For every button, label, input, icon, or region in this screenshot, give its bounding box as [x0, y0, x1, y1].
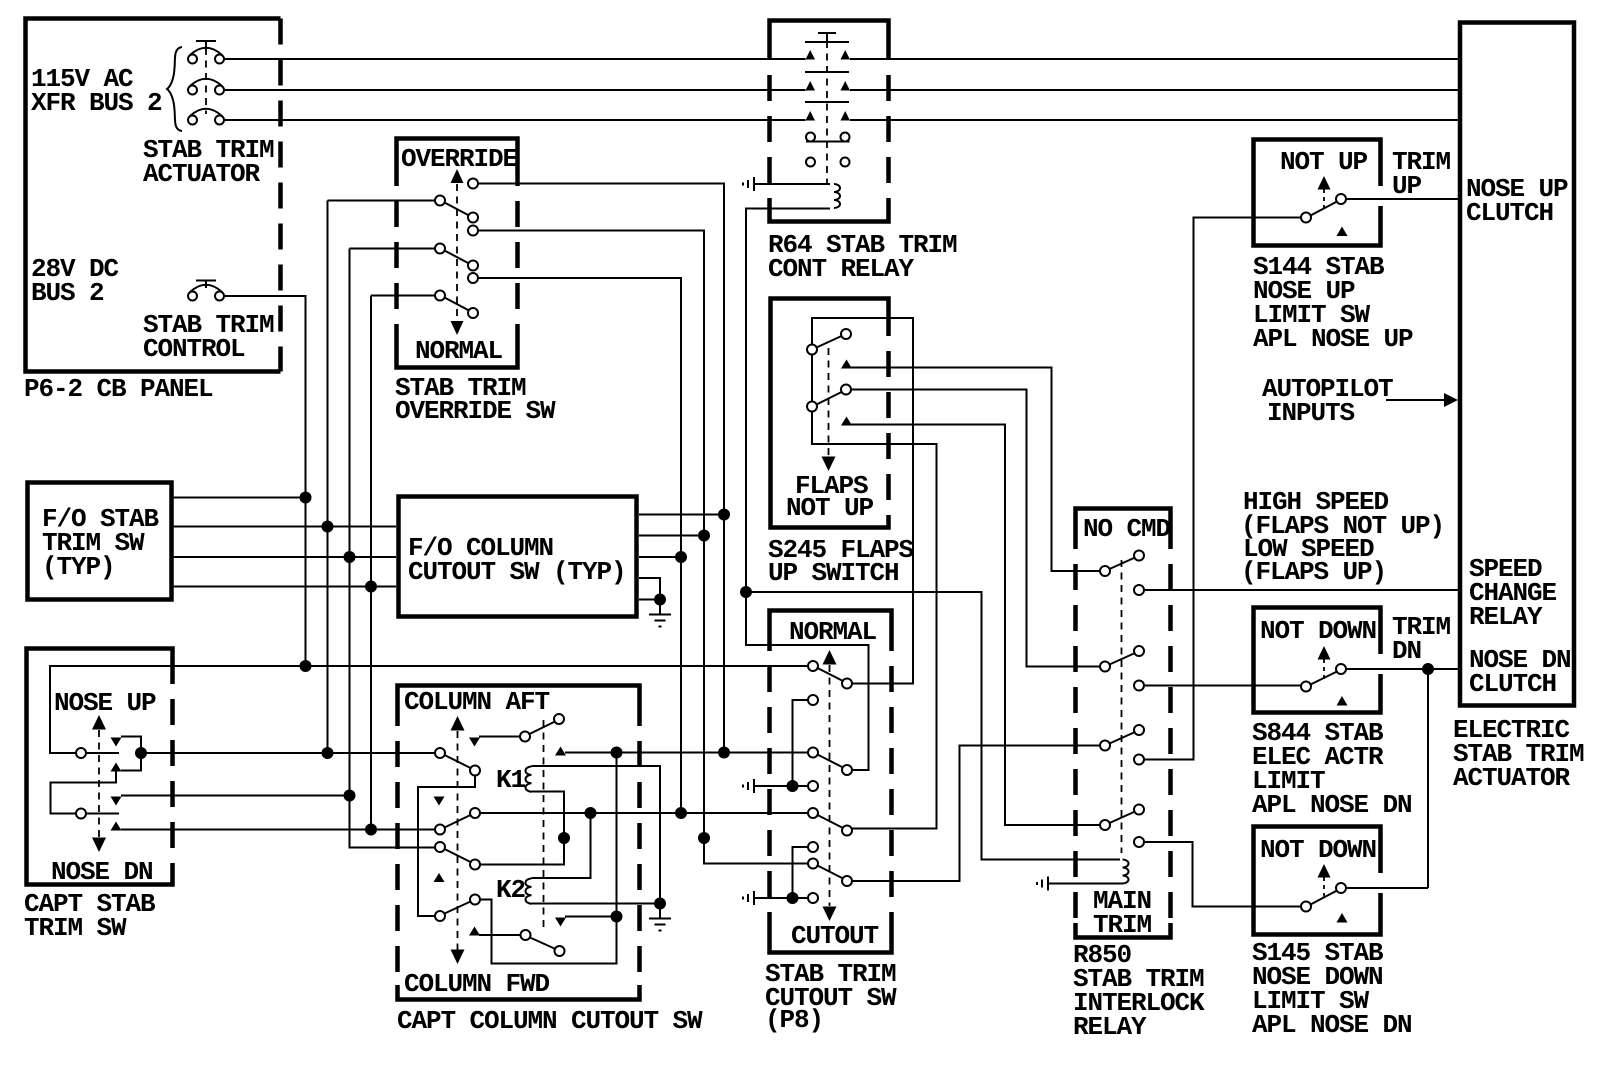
wire S245 pole2 up-mark to R850 pole4 common [851, 425, 1100, 826]
svg-text:NOSE UP: NOSE UP [54, 688, 156, 718]
R850 box dashed sides [1073, 523, 1078, 923]
bus override pole3 vertical x371 [370, 296, 372, 830]
wire K2 up-mark to pivot [479, 934, 521, 936]
autopilot inputs arrowhead [1444, 393, 1458, 407]
capt sw pole2 common [76, 809, 86, 819]
R64 T-bar [818, 33, 836, 41]
svg-text:RELAY: RELAY [1469, 602, 1543, 632]
S245 pole2 common [807, 402, 817, 412]
K2 contact blade [530, 938, 556, 950]
svg-text:NOT UP: NOT UP [1280, 147, 1368, 177]
K1 relay coil [526, 767, 532, 792]
wire S245 pole1 common to P8 pole1 contact [812, 318, 913, 684]
pole D common [435, 911, 445, 921]
wire K1 up-mark to P8 cutout pole2 common [565, 752, 808, 754]
svg-text:(TYP): (TYP) [42, 552, 115, 582]
S245 actuator dashed line [828, 348, 830, 458]
S844 blade [1311, 672, 1338, 685]
P8 cutout contact B [808, 781, 818, 791]
R850 pole1 blade [1110, 558, 1136, 570]
R850 pole4 blade end [1134, 805, 1144, 815]
capt sw pole1 common [76, 748, 86, 758]
node bus327 / F-O pin2 [322, 521, 334, 533]
node bus349 / F-O pin3 [344, 551, 356, 563]
override sw pole 2 lower contact [468, 261, 478, 271]
R850 pole3 common [1100, 741, 1110, 751]
column sw down arrow [451, 950, 465, 965]
node bus681 / pole B wire [675, 807, 687, 819]
capt column cutout box dashed sides [395, 700, 400, 985]
wire fo cutout pin3 to bus x681 [639, 556, 681, 558]
wire 28V DC control CB to bus [224, 296, 306, 498]
pole C contact [470, 860, 480, 870]
wire fo sw pin2 to fo cutout sw [172, 526, 396, 528]
capt column cutout sw box [398, 686, 640, 1000]
P6-2 CB panel box dashed right edge [278, 19, 283, 372]
P8 pole1 contact [842, 679, 852, 689]
override sw pole 3 lower contact [468, 308, 478, 318]
wire R850 pole2 contact to S844 common [1144, 685, 1301, 687]
svg-text:INPUTS: INPUTS [1267, 398, 1355, 428]
svg-text:NOT DOWN: NOT DOWN [1260, 835, 1376, 865]
svg-text:CONT RELAY: CONT RELAY [768, 254, 915, 284]
wire fo sw pin1 to bus x306 [172, 497, 306, 499]
svg-text:BUS 2: BUS 2 [31, 278, 104, 308]
svg-text:UP: UP [1392, 171, 1422, 201]
K2 contact blade end [555, 946, 565, 956]
R64 contact 3 triangles [806, 111, 851, 121]
R850 pole4 common [1100, 820, 1110, 830]
ground R64 coil [743, 177, 754, 191]
R850 pole2 blade [1110, 653, 1136, 665]
wire pole B contact to P8 cutout pole3 common [480, 812, 808, 814]
circuit breaker CB2 (phase B) [188, 79, 224, 95]
svg-text:NO CMD: NO CMD [1083, 514, 1171, 544]
pole B upper contact [470, 808, 480, 818]
wire fo cutout pin4 ground stub [639, 578, 660, 600]
bus override pole1 vertical x327 [327, 201, 329, 754]
P8 pole3 blade [818, 815, 844, 828]
P8 pole4 contact [842, 876, 852, 886]
K2 contact up-mark [469, 927, 480, 936]
stab trim override switch box [397, 139, 518, 368]
R850 relay coil [1123, 860, 1129, 884]
pole A contact [470, 766, 480, 776]
R850 pole2 blade end [1134, 646, 1144, 656]
wire capt pole2 down contact to capt column pole B [121, 829, 435, 831]
svg-text:K1: K1 [496, 765, 526, 795]
wire ground to R850 coil [1048, 883, 1123, 885]
P8 cutout contact D [808, 893, 818, 903]
brace for 115V AC bus [167, 47, 182, 131]
node bus371 / F-O pin4 [365, 581, 377, 593]
node F-O ground [654, 594, 666, 606]
svg-text:ACTUATOR: ACTUATOR [143, 159, 261, 189]
node bus724 / K1 wire [718, 747, 730, 759]
svg-text:APL NOSE UP: APL NOSE UP [1253, 324, 1413, 354]
wire phase A R64 to actuator box [850, 58, 1458, 60]
capt sw up arrow [92, 715, 106, 730]
S844 up arrow [1318, 646, 1331, 660]
node R64 coil junction [740, 586, 752, 598]
pole A blade [445, 755, 471, 768]
K1 contact down-mark [469, 738, 480, 747]
S844 common [1301, 682, 1311, 692]
stab trim cutout sw P8 box [770, 611, 892, 953]
P8 pole3 common [808, 808, 818, 818]
S144 actuator mini dashed line [1323, 189, 1325, 210]
node 28VDC / F-O pin1 [300, 492, 312, 504]
ground R850 coil [1037, 877, 1048, 891]
S144 box dashed right edge [1378, 152, 1383, 233]
S245 pole2 blade [817, 392, 842, 405]
wire R850 pole4 contact to S145 common [1144, 842, 1301, 907]
R850 stab trim interlock relay box [1076, 509, 1171, 938]
K2 contact pivot [521, 930, 531, 940]
wire pole A contact to pole D common [418, 776, 475, 917]
wire phase C R64 to actuator box [850, 119, 1458, 121]
wire R64 junction to R850 coil [746, 592, 1120, 860]
S245 pole1 blade [817, 336, 842, 348]
S145 actuator mini dashed line [1323, 877, 1325, 898]
F/O column cutout sw box [399, 497, 637, 617]
svg-text:RELAY: RELAY [1073, 1012, 1147, 1042]
R64 aux contact circles with bar [806, 133, 850, 142]
P8 pole2 common [808, 748, 818, 758]
wire override pole2 output to bus x704 [478, 231, 704, 536]
S844 up-mark [1337, 696, 1348, 706]
P8 pole1 common [808, 661, 818, 671]
S844 stab elec actr limit box [1254, 608, 1381, 713]
R64 actuator dashed line [826, 41, 828, 184]
R850 pole1 contact [1134, 585, 1144, 595]
R850 pole1 common [1100, 566, 1110, 576]
wire ground to cutout contact D [754, 897, 808, 899]
override sw pole 2 output contact [468, 226, 478, 236]
wire override pole3 common to bus x371 [371, 295, 435, 297]
svg-text:(P8): (P8) [765, 1005, 823, 1035]
P8 pole1 blade [818, 668, 844, 681]
node bus616 bottom [611, 911, 623, 923]
S245 flaps up switch box [771, 299, 889, 528]
S145 common [1301, 902, 1311, 912]
pole C common [435, 842, 445, 852]
R850 pole3 contact [1134, 755, 1144, 765]
override sw pole 1 blade [445, 203, 470, 216]
pole C blade [445, 849, 471, 862]
capt sw pole1 down contact [111, 763, 122, 772]
wire capt pole2 up contact to bus x349 [121, 795, 350, 797]
ground P8 upper [743, 779, 754, 793]
override sw pole 1 common [435, 196, 445, 206]
wire S245 common link [811, 355, 813, 402]
node bus704 / pole C wire [698, 832, 710, 844]
S245 pole2 upper contact [841, 385, 851, 395]
S145 box dashed right edge [1378, 839, 1383, 922]
pole D contact [470, 895, 480, 905]
K2 relay coil [526, 879, 532, 904]
node bus724 / F-O pin1 [718, 509, 730, 521]
node bus349 / capt up contact [344, 790, 356, 802]
capt box dashed right edge [170, 658, 175, 875]
up-mark pole C [434, 873, 445, 882]
wire capt pole1 common stub [86, 752, 119, 754]
column sw actuator dashed line [457, 731, 459, 950]
override sw pole 1 output contact [468, 179, 478, 189]
svg-text:NORMAL: NORMAL [789, 617, 877, 647]
R850 pole3 blade end [1134, 725, 1144, 735]
svg-text:DN: DN [1392, 636, 1421, 666]
node K1 coil / pole C [558, 832, 570, 844]
R64 contact 2 triangles [806, 81, 851, 91]
S245 box dashed right edge [886, 310, 891, 516]
wire fo sw pin3 to fo cutout sw [172, 556, 396, 558]
P8 actuator dashed line [829, 665, 831, 906]
P8 pole2 contact [842, 765, 852, 775]
CB gang dashed link [205, 48, 207, 114]
column sw up arrow [451, 716, 465, 731]
S844 box dashed right edge [1378, 620, 1383, 700]
P8 pole3 contact [842, 826, 852, 836]
R64 contact 3 bar [805, 101, 849, 103]
S145 blade [1311, 891, 1338, 905]
svg-text:OVERRIDE SW: OVERRIDE SW [395, 396, 556, 426]
svg-text:CLUTCH: CLUTCH [1466, 198, 1553, 228]
wire cutout contact A to ground dot [793, 700, 809, 786]
svg-text:CUTOUT SW (TYP): CUTOUT SW (TYP) [408, 557, 626, 587]
R64 relay coil [834, 184, 840, 208]
override sw pole 3 common [435, 291, 445, 301]
wire K1 coil bottom to pole C contact [480, 792, 564, 865]
S245 pole1 blade end [841, 329, 851, 339]
P8 pole4 blade [818, 866, 844, 879]
override sw pole 2 blade [445, 251, 470, 264]
wire phase B R64 to actuator box [850, 89, 1458, 91]
wire capt pole2 common stub [86, 813, 119, 815]
S144 stab nose up limit sw box [1254, 140, 1381, 246]
node K2 coil / pole B wire [585, 807, 597, 819]
R850 pole4 contact [1134, 837, 1144, 847]
wire cutout contact C to ground dot [793, 847, 809, 898]
svg-text:K2: K2 [496, 875, 526, 905]
R850 pole2 contact [1134, 681, 1144, 691]
R64 aux contact circles open [806, 158, 850, 167]
bus fo-cutout2 vertical x704 [704, 231, 808, 864]
wire P8 pole2 contact to R64 coil junction [746, 592, 869, 770]
wire override pole1 output to bus x724 [478, 184, 724, 753]
ground P8 lower [743, 891, 754, 905]
S145 up arrow [1318, 864, 1331, 878]
svg-text:CUTOUT: CUTOUT [791, 921, 879, 951]
wire S145 contact to S844 junction [1346, 887, 1428, 889]
S144 up-mark [1337, 227, 1348, 237]
wire phase B CB to R64 [224, 89, 806, 91]
wire R850 pole3 contact to S144 common [1144, 218, 1301, 760]
wire K1 coil top to ground dot [532, 766, 661, 904]
svg-text:NOSE DN: NOSE DN [51, 857, 153, 887]
svg-text:NORMAL: NORMAL [415, 336, 503, 366]
wire phase A CB to R64 [224, 58, 806, 60]
R64 stab trim cont relay box [770, 21, 889, 222]
capt sw down arrow [92, 838, 106, 853]
S144 blade [1311, 202, 1338, 216]
K1 contact pivot [520, 732, 530, 742]
pole B common [435, 825, 445, 835]
wire K2 coil bottom to ground dot [532, 903, 661, 905]
K1 K2 mechanical dashed link [543, 720, 545, 932]
R850 pole1 blade end [1134, 551, 1144, 561]
wire ground to R64 coil [754, 183, 830, 185]
bus fo-cutout1 vertical x724 [723, 184, 725, 753]
F/O stab trim sw box [28, 483, 172, 600]
override switch actuator dashed line [456, 184, 458, 322]
node bus327 / capt pole1 out [322, 747, 334, 759]
R850 actuator dashed line [1121, 560, 1123, 853]
capt stab trim sw box [27, 649, 173, 885]
P6-2 CB panel box [26, 19, 281, 372]
svg-text:OVERRIDE: OVERRIDE [401, 144, 518, 174]
wire S144 contact to nose up clutch [1346, 198, 1458, 200]
S145 stab nose down limit sw box [1254, 827, 1381, 935]
wire phase C CB to R64 [224, 119, 806, 121]
wire K2 down-mark to dot x616 [565, 916, 617, 918]
P8 cutout contact A [808, 695, 818, 705]
R850 pole4 blade [1110, 812, 1136, 824]
svg-text:ACTUATOR: ACTUATOR [1453, 763, 1571, 793]
bus override pole2 vertical x349 [350, 249, 436, 848]
R64 contact 1 triangles [806, 50, 851, 60]
node K coils ground [654, 898, 666, 910]
capt sw pole1 up contact [111, 738, 122, 747]
S245 pole1 up-mark contact [841, 360, 852, 369]
override switch up arrow [451, 169, 464, 183]
node bus371 / capt dn contact [365, 824, 377, 836]
wire S245 pole2 contact to R850 pole2 common [851, 390, 1100, 667]
wire capt pole1 up contact to output [121, 737, 141, 771]
wire capt pole1 common to P8 normal pole [50, 666, 808, 753]
svg-text:APL NOSE DN: APL NOSE DN [1252, 1010, 1412, 1040]
node P8 upper ground [787, 780, 799, 792]
override sw pole 1 lower contact [468, 213, 478, 223]
svg-text:COLUMN FWD: COLUMN FWD [404, 969, 550, 999]
svg-text:TRIM SW: TRIM SW [24, 913, 127, 943]
bus 28VDC vertical x306 [305, 296, 307, 666]
S844 actuator mini dashed line [1323, 659, 1325, 679]
bus fo-cutout3 vertical x681 [680, 278, 682, 813]
override switch down arrow [451, 321, 464, 335]
capt sw pole2 up contact [111, 797, 122, 806]
wire S245 pole1 contact to R850 pole1 common [851, 368, 1100, 572]
wire K2 coil top elbow [532, 813, 591, 878]
circuit breaker CB1 (phase A) [188, 48, 224, 64]
S145 up-mark [1337, 913, 1348, 923]
bus K1-up-mark vertical x616 [616, 753, 618, 917]
wire K1 mark to pivot [479, 736, 520, 738]
P8 cutout contact C [808, 842, 818, 852]
wire R850 pole1 contact to speed change relay [1144, 589, 1458, 591]
svg-text:TRIM: TRIM [1093, 910, 1152, 940]
electric stab trim actuator box [1460, 23, 1574, 706]
wire fo cutout pin1 to bus x724 [639, 514, 724, 516]
ground K1 K2 coils [649, 904, 671, 931]
wire capt pole1 down contact to pole2 common [51, 772, 117, 814]
svg-text:CAPT COLUMN CUTOUT SW: CAPT COLUMN CUTOUT SW [397, 1006, 703, 1036]
wire override pole1 common to bus x327 [328, 200, 436, 202]
K1 contact up-mark [555, 747, 566, 756]
P8 down arrow [823, 907, 837, 922]
node S844 output junction [1422, 663, 1434, 675]
circuit breaker CB4 stab trim control T-bar [196, 281, 216, 289]
R850 pole3 blade [1110, 732, 1136, 744]
S144 contact [1336, 194, 1346, 204]
R850 pole2 common [1100, 662, 1110, 672]
svg-text:NOT UP: NOT UP [786, 493, 874, 523]
override sw pole 3 blade [445, 298, 470, 311]
wire override pole3 output to bus x681 [478, 278, 681, 557]
pole A common [435, 748, 445, 758]
capt sw actuator dashed line [98, 730, 100, 838]
autopilot inputs arrow wire [1386, 399, 1447, 401]
svg-text:COLUMN AFT: COLUMN AFT [404, 687, 550, 717]
P8 pole4 common [808, 859, 818, 869]
node capt pole1 output [135, 747, 147, 759]
svg-text:NOT DOWN: NOT DOWN [1260, 616, 1376, 646]
K1 contact blade end [554, 714, 564, 724]
wire pole D contact loop to dot x616 [480, 900, 617, 964]
wire P8 pole4 contact to R850 pole3 common [852, 746, 1100, 882]
wire fo cutout pin2 to bus x704 [639, 535, 704, 537]
K1 contact blade [530, 722, 556, 735]
node 28VDC / capt wire [300, 660, 312, 672]
node P8 lower ground [787, 892, 799, 904]
R64 box dashed sides [767, 34, 772, 208]
override sw pole 2 common [435, 244, 445, 254]
wire S844 junction down to S145 contact [1427, 669, 1429, 888]
S144 up arrow [1318, 176, 1331, 190]
K2 contact down-mark [555, 918, 566, 927]
S844 contact [1336, 664, 1346, 674]
wire capt pole1 output to capt column cutout [141, 752, 435, 754]
R64 contact 2 bar [805, 71, 849, 73]
down-mark pole B [434, 797, 445, 806]
circuit breaker CB1 (phase A) T-bar [196, 41, 216, 47]
S245 down arrow [822, 457, 836, 472]
wire R64 coil to junction x746 [746, 209, 830, 593]
wire fo cutout pin5 to ground [639, 599, 660, 601]
svg-text:CLUTCH: CLUTCH [1469, 669, 1556, 699]
P8 pole2 blade [818, 755, 844, 768]
circuit breaker CB4 stab trim control [188, 285, 224, 301]
svg-text:UP SWITCH: UP SWITCH [768, 558, 899, 588]
node bus616 top [611, 747, 623, 759]
node bus704 / F-O pin2 [698, 530, 710, 542]
pole B blade [445, 815, 471, 828]
wire S245 pole2 common to P8 pole3 contact [812, 412, 937, 829]
svg-text:(FLAPS UP): (FLAPS UP) [1241, 557, 1386, 587]
svg-text:APL NOSE DN: APL NOSE DN [1252, 790, 1412, 820]
override sw pole 3 output contact [468, 273, 478, 283]
wire fo sw pin4 to fo cutout sw [172, 586, 396, 588]
R64 contact 1 bar [805, 41, 849, 43]
S245 pole2 up-mark contact [841, 417, 852, 426]
node bus681 / F-O pin3 [675, 551, 687, 563]
S145 contact [1336, 883, 1346, 893]
P8 up arrow [823, 650, 837, 665]
svg-text:XFR BUS 2: XFR BUS 2 [31, 88, 162, 118]
P8 box dashed sides [767, 625, 772, 938]
svg-text:P6-2 CB PANEL: P6-2 CB PANEL [24, 374, 213, 404]
wire ground to cutout contact B [754, 785, 808, 787]
